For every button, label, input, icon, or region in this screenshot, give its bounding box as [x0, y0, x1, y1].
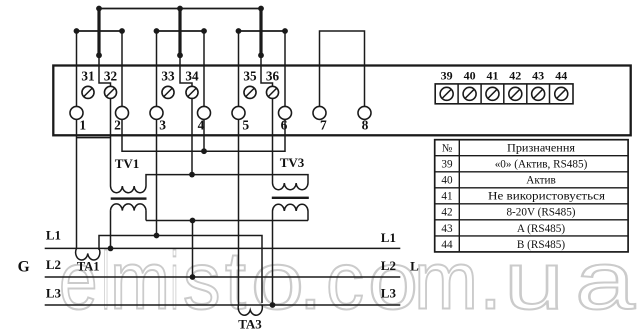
svg-text:39: 39	[441, 68, 453, 82]
svg-text:c: c	[326, 236, 364, 327]
svg-text:35: 35	[243, 68, 257, 83]
svg-text:L1: L1	[381, 230, 396, 245]
svg-text:G: G	[18, 258, 30, 275]
svg-text:43: 43	[441, 223, 453, 235]
svg-text:41: 41	[486, 68, 498, 82]
svg-text:TV1: TV1	[115, 156, 140, 171]
svg-text:34: 34	[185, 68, 199, 83]
svg-text:t: t	[225, 236, 246, 327]
svg-text:32: 32	[104, 68, 118, 83]
svg-text:33: 33	[161, 68, 175, 83]
svg-text:«0» (Актив, RS485): «0» (Актив, RS485)	[495, 159, 588, 171]
svg-text:Призначення: Призначення	[507, 143, 575, 155]
svg-text:L2: L2	[46, 257, 61, 272]
svg-text:a: a	[575, 236, 636, 327]
svg-text:TV3: TV3	[280, 155, 305, 170]
svg-text:L1: L1	[46, 228, 61, 243]
svg-text:TA3: TA3	[238, 317, 262, 332]
svg-text:.: .	[479, 236, 502, 327]
svg-text:31: 31	[81, 68, 94, 83]
svg-text:i: i	[171, 236, 178, 327]
svg-text:40: 40	[441, 175, 453, 187]
svg-text:L: L	[410, 259, 419, 274]
svg-text:o: o	[251, 236, 304, 327]
svg-text:s: s	[183, 236, 221, 327]
svg-text:e: e	[59, 236, 98, 327]
svg-text:44: 44	[555, 68, 567, 82]
svg-text:40: 40	[464, 68, 476, 82]
svg-text:5: 5	[242, 118, 249, 133]
svg-text:42: 42	[509, 68, 521, 82]
svg-text:TA1: TA1	[77, 260, 100, 274]
svg-text:43: 43	[532, 68, 544, 82]
svg-text:2: 2	[114, 118, 121, 133]
svg-text:1: 1	[79, 118, 86, 133]
svg-text:m: m	[110, 236, 170, 327]
svg-text:6: 6	[281, 118, 288, 133]
svg-text:L2: L2	[381, 258, 396, 273]
svg-text:36: 36	[266, 68, 280, 83]
svg-text:L3: L3	[381, 285, 397, 300]
svg-text:8: 8	[362, 118, 369, 133]
svg-text:B (RS485): B (RS485)	[517, 239, 565, 251]
svg-text:№: №	[442, 143, 453, 155]
svg-text:Актив: Актив	[526, 175, 556, 187]
svg-text:o: o	[368, 236, 418, 327]
svg-text:A (RS485): A (RS485)	[517, 223, 565, 235]
svg-text:44: 44	[441, 239, 453, 251]
svg-text:.: .	[299, 236, 322, 327]
svg-text:8-20V (RS485): 8-20V (RS485)	[506, 207, 575, 219]
svg-text:7: 7	[320, 118, 327, 133]
svg-text:L3: L3	[46, 285, 62, 300]
svg-text:41: 41	[441, 191, 452, 203]
svg-text:3: 3	[159, 118, 166, 133]
svg-text:39: 39	[441, 159, 453, 171]
svg-text:Не використовується: Не використовується	[488, 191, 605, 203]
svg-text:42: 42	[441, 207, 452, 219]
